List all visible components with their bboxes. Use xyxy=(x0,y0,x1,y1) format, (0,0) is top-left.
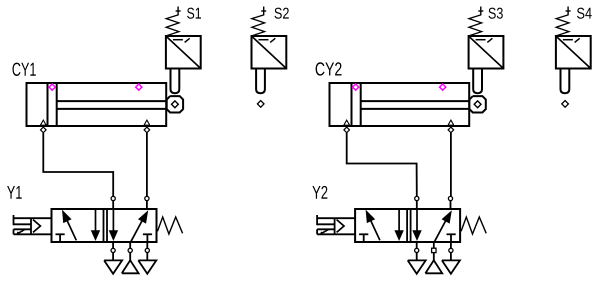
bottom port stub 5 of Y1 xyxy=(111,242,115,260)
flow arrow down in right box of Y2 xyxy=(412,209,421,241)
wire CY1 right port to valve Y1 port 2 xyxy=(146,133,148,196)
top port connector left of Y2 xyxy=(415,196,419,209)
flow arrow up-right in right box of Y2 xyxy=(434,210,451,242)
flow arrow up-left in left box of Y2 xyxy=(366,210,380,241)
limit switch S1 body xyxy=(166,36,201,69)
wire CY2 right port to valve Y2 port 2 xyxy=(450,133,452,196)
valve Y1 body outline xyxy=(52,209,157,242)
limit switch S3 body xyxy=(469,36,504,69)
top port connector right of Y2 xyxy=(448,196,452,209)
plunger stem of S2 xyxy=(256,69,265,94)
connection ring left port of CY2 xyxy=(344,127,350,133)
return spring of S2 xyxy=(252,15,265,36)
contact symbol inside S3 xyxy=(476,38,493,42)
label S3 xyxy=(489,8,503,19)
exhaust silencer triangle right of Y2 xyxy=(442,260,460,273)
cylinder CY2 body xyxy=(330,83,470,126)
bottom port stub 1 (supply) of Y1 xyxy=(128,242,132,261)
blocked port T left box of Y1 xyxy=(56,234,65,242)
cylinder CY1 body xyxy=(27,83,167,126)
bottom port stub 1 (supply) of Y2 xyxy=(432,242,436,261)
supply triangle middle of Y1 xyxy=(122,260,139,273)
manual override box of Y2 xyxy=(317,229,335,235)
label Y1 xyxy=(7,186,22,199)
blocked port T right box of Y1 xyxy=(143,234,152,242)
flow arrow up-left in left box of Y1 xyxy=(62,210,76,241)
valve Y2 body outline xyxy=(355,209,460,242)
cylinder CY2 piston rod xyxy=(361,101,472,109)
flow arrow up-right in right box of Y1 xyxy=(131,210,148,242)
manual override box of Y1 xyxy=(14,229,32,235)
pneumatic pilot box of Y1 xyxy=(31,218,52,234)
limit switch S2 body xyxy=(252,36,287,69)
valve Y2 position divider xyxy=(407,209,411,242)
spring anchor mark of S3 xyxy=(478,7,483,16)
connection ring left port of CY1 xyxy=(41,127,47,133)
cylinder CY1 piston rod xyxy=(57,101,169,109)
bottom port stub 5 of Y2 xyxy=(415,242,419,260)
label S2 xyxy=(274,8,288,19)
blocked port T right box of Y2 xyxy=(447,234,456,242)
return spring of S4 xyxy=(556,15,569,36)
cylinder CY2 piston xyxy=(352,83,361,126)
port arrow left of CY1 xyxy=(40,120,46,125)
roller follower on S3 rod xyxy=(469,96,485,112)
return spring of S3 xyxy=(469,15,482,36)
connection ring right port of CY2 xyxy=(448,127,454,133)
contact symbol inside S2 xyxy=(259,38,276,42)
solenoid coil of Y1 xyxy=(14,215,32,225)
distance marker (magenta) on CY1 piston xyxy=(49,84,55,90)
wire CY2 left port to valve Y2 port 4 xyxy=(347,133,417,196)
contact symbol inside S4 xyxy=(563,38,580,42)
plunger stem of S1 xyxy=(171,69,180,94)
label Y2 xyxy=(312,186,327,199)
wire CY1 left port to valve Y1 port 4 xyxy=(43,133,113,196)
label S4 xyxy=(577,8,592,19)
plunger stem of S3 xyxy=(473,69,482,94)
connection ring right port of CY1 xyxy=(144,127,150,133)
port arrow right of CY1 xyxy=(144,120,150,125)
bottom port stub 3 of Y1 xyxy=(145,242,149,260)
cylinder CY1 piston xyxy=(48,83,57,126)
label S1 xyxy=(187,8,201,19)
distance marker (magenta) on CY2 piston xyxy=(353,84,359,90)
distance marker (magenta) on CY2 right xyxy=(440,84,446,90)
free connection marker below S4 xyxy=(562,101,569,108)
distance marker (magenta) on CY1 right xyxy=(136,84,142,90)
bottom port stub 3 of Y2 xyxy=(449,242,453,260)
spring anchor mark of S2 xyxy=(261,7,266,16)
exhaust silencer triangle left of Y1 xyxy=(104,260,122,273)
plunger stem of S4 xyxy=(561,69,570,94)
contact symbol inside S1 xyxy=(173,38,190,42)
label CY2 xyxy=(316,62,342,75)
return spring of S1 xyxy=(166,15,179,36)
top port connector right of Y1 xyxy=(145,196,149,209)
return spring of Y2 xyxy=(461,217,486,234)
exhaust silencer triangle left of Y2 xyxy=(408,260,426,273)
limit switch S4 body xyxy=(556,36,591,69)
exhaust silencer triangle right of Y1 xyxy=(138,260,156,273)
flow arrow down in right box of Y1 xyxy=(109,209,118,241)
spring anchor mark of S4 xyxy=(566,7,571,16)
valve Y1 position divider xyxy=(104,209,108,242)
return spring of Y1 xyxy=(158,217,183,234)
label CY1 xyxy=(13,63,36,76)
blocked port T left box of Y2 xyxy=(359,234,368,242)
roller follower on S1 rod xyxy=(167,96,183,112)
port arrow right of CY2 xyxy=(448,120,454,125)
flow arrow down in left box of Y1 xyxy=(91,209,100,241)
supply triangle middle of Y2 xyxy=(425,260,442,273)
pneumatic pilot box of Y2 xyxy=(335,218,356,234)
free connection marker below S2 xyxy=(257,101,264,108)
flow arrow down in left box of Y2 xyxy=(394,209,403,241)
port arrow left of CY2 xyxy=(344,120,350,125)
top port connector left of Y1 xyxy=(111,196,115,209)
spring anchor mark of S1 xyxy=(176,7,181,16)
solenoid coil of Y2 xyxy=(317,215,335,225)
